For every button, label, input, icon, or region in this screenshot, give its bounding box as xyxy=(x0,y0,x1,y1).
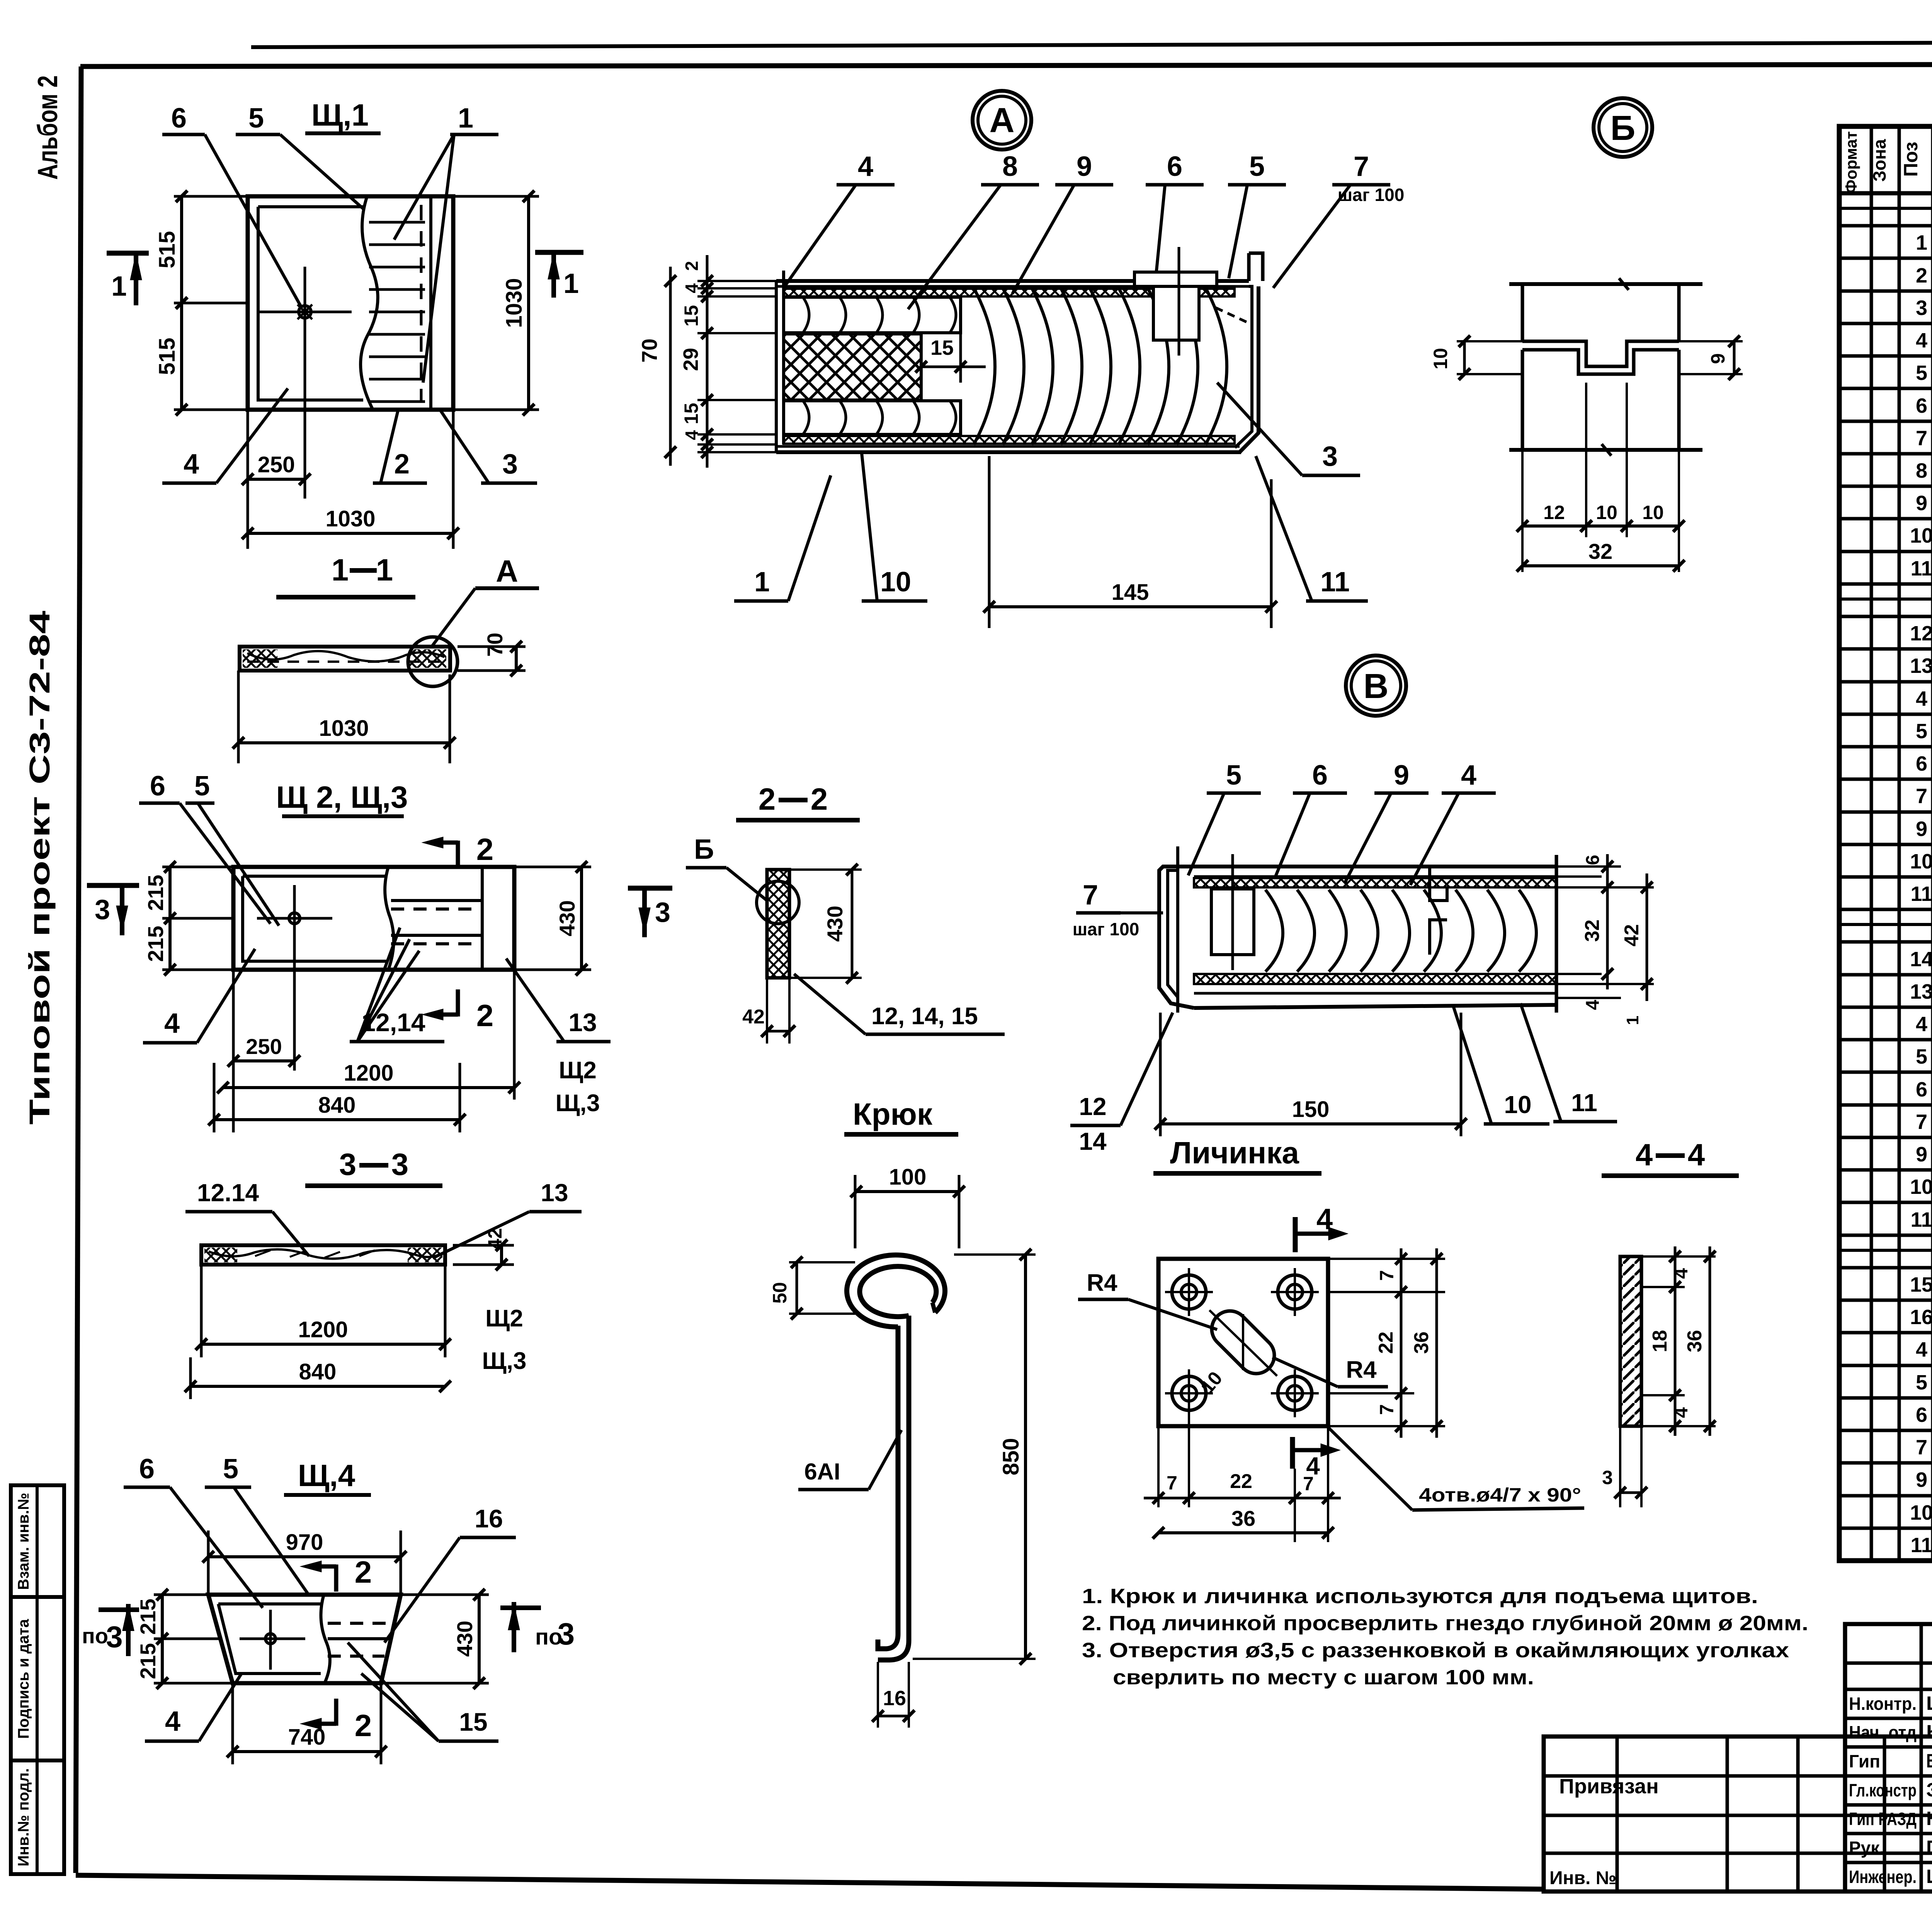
svg-text:R4: R4 xyxy=(1087,1270,1117,1296)
table row 4: поз 3 ДОСКА 59 х 145х 1030 xyxy=(1839,322,1932,325)
table row 23: поз - Щ ит Щ3 xyxy=(1839,940,1932,944)
table row 41: поз 10 АСБЕСТОВЫЙ КАРТОН δ=4, м² xyxy=(1839,1527,1932,1530)
detail A top board woodgrain left part xyxy=(784,297,961,333)
по3 left xyxy=(99,1607,139,1612)
center hole xyxy=(289,913,300,924)
svg-text:Крюк: Крюк xyxy=(853,1097,933,1131)
table row 26: поз 4 ЛИНОЛЕУМδ=2, м² xyxy=(1839,1038,1932,1042)
svg-text:7: 7 xyxy=(1916,1436,1927,1459)
section mark 1-1 right xyxy=(535,250,583,255)
panel Щ1 board lines xyxy=(369,221,425,224)
svg-text:250: 250 xyxy=(258,452,295,477)
svg-text:36: 36 xyxy=(1410,1331,1433,1354)
svg-text:4: 4 xyxy=(1306,1452,1320,1480)
svg-text:11: 11 xyxy=(1320,567,1350,598)
svg-text:9: 9 xyxy=(1916,817,1927,841)
frame left border xyxy=(76,66,81,1873)
section mark 4 bottom xyxy=(1290,1437,1295,1469)
svg-text:Альбом 2: Альбом 2 xyxy=(32,75,63,180)
svg-text:Казаков: Казаков xyxy=(1926,1808,1932,1829)
svg-text:9: 9 xyxy=(1916,1143,1927,1166)
table row 1: поз - Щ ит Щ1 xyxy=(1839,224,1932,228)
svg-text:1: 1 xyxy=(754,567,770,598)
svg-text:Гип РАЗД: Гип РАЗД xyxy=(1849,1809,1917,1829)
svg-text:1: 1 xyxy=(111,271,127,302)
svg-text:8: 8 xyxy=(1916,459,1927,482)
svg-text:4: 4 xyxy=(165,1706,180,1737)
table row 39: поз 7 ШУРУП Ф3 ℓ=22 xyxy=(1839,1461,1932,1465)
hook dim 16 xyxy=(877,1662,879,1728)
upper board bottom with tongue xyxy=(1522,341,1679,366)
svg-text:Виноградов: Виноградов xyxy=(1926,1750,1932,1772)
svg-text:15: 15 xyxy=(930,336,954,359)
svg-text:7: 7 xyxy=(1916,1110,1927,1134)
section 2-2 strip xyxy=(767,870,789,978)
svg-text:Щ,3: Щ,3 xyxy=(482,1348,527,1374)
svg-text:10: 10 xyxy=(1642,502,1664,523)
svg-text:Щ,4: Щ,4 xyxy=(298,1458,355,1493)
detail A left dim stack xyxy=(697,280,776,282)
detail A leader lines xyxy=(784,185,856,287)
svg-text:5: 5 xyxy=(248,103,264,134)
svg-text:42: 42 xyxy=(484,1228,506,1250)
table row 24: поз 14 НАСТИЛ ПОЛА 32х150х520 xyxy=(1839,973,1932,977)
table row 32: поз 11 КРОВЕЛЬНАЯ ОЦИНКОВАННАЯ xyxy=(1839,1234,1932,1237)
svg-text:6: 6 xyxy=(1916,1078,1927,1101)
svg-text:16: 16 xyxy=(474,1504,503,1533)
svg-text:9: 9 xyxy=(1916,492,1927,515)
table row 27: поз 5 АЛЮМИНЕВЫЙ L20х15х1,5х1,5пм xyxy=(1839,1071,1932,1074)
svg-text:Циганова: Циганова xyxy=(1926,1692,1932,1714)
panel Щ1 outer outline xyxy=(248,196,453,410)
hook loop inner xyxy=(860,1267,936,1317)
svg-text:4: 4 xyxy=(858,151,873,182)
svg-text:4: 4 xyxy=(1583,999,1603,1010)
dashes right xyxy=(328,1622,390,1625)
svg-text:70: 70 xyxy=(483,633,507,657)
bottom dims 12 10 10 / 32 xyxy=(1521,450,1524,572)
svg-text:Зона: Зона xyxy=(1869,139,1889,182)
svg-text:6: 6 xyxy=(150,771,165,802)
svg-text:32: 32 xyxy=(1581,919,1604,942)
table row 13: поз - Щ ит Щ2 xyxy=(1839,615,1932,618)
svg-text:10: 10 xyxy=(1910,850,1932,873)
spec table column lines xyxy=(1870,126,1873,1561)
svg-text:6: 6 xyxy=(139,1454,155,1485)
svg-text:7: 7 xyxy=(1354,151,1369,182)
svg-text:11: 11 xyxy=(1571,1089,1597,1117)
table row 10: поз 9 ДРЕВЕСНО-ВОЛОКНИСТАЯ xyxy=(1839,517,1932,521)
svg-text:5: 5 xyxy=(1249,151,1265,182)
svg-text:1030: 1030 xyxy=(319,716,369,741)
svg-text:9: 9 xyxy=(1077,151,1092,182)
svg-text:32: 32 xyxy=(1588,539,1612,564)
svg-text:5: 5 xyxy=(194,771,210,802)
svg-text:7: 7 xyxy=(1167,1472,1177,1494)
svg-text:2. Под личинкой просверлить гн: 2. Под личинкой просверлить гнездо глуби… xyxy=(1082,1612,1808,1635)
svg-text:Гл.констр: Гл.констр xyxy=(1849,1780,1917,1800)
table row 5: поз 4 ЛИНОЛЕУМ δ=2, м² xyxy=(1839,354,1932,358)
svg-text:5: 5 xyxy=(223,1454,238,1485)
svg-text:430: 430 xyxy=(823,906,847,941)
detail Б profile xyxy=(1509,282,1702,286)
table row 28: поз 6 ЛИЧИНКА xyxy=(1839,1103,1932,1107)
table row 19: поз 7 ШУРУП Ф3 ℓ=22 xyxy=(1839,810,1932,814)
svg-text:740: 740 xyxy=(288,1725,326,1750)
dim 740 xyxy=(231,1683,234,1764)
svg-text:Привязан: Привязан xyxy=(1559,1775,1659,1798)
dim 430 xyxy=(789,868,862,871)
svg-text:1200: 1200 xyxy=(298,1317,348,1342)
svg-text:Поз: Поз xyxy=(1900,142,1922,177)
svg-text:15: 15 xyxy=(1910,1273,1932,1296)
detail A circle mark xyxy=(973,91,1031,150)
svg-text:Взам. инв.№: Взам. инв.№ xyxy=(15,1493,32,1590)
section mark 1-1 left xyxy=(107,251,149,256)
section mark 3 right xyxy=(628,886,672,891)
svg-text:11: 11 xyxy=(1910,557,1932,580)
svg-text:Нач. отд: Нач. отд xyxy=(1849,1722,1917,1742)
detail A top layers xyxy=(776,279,1249,283)
dim 970 xyxy=(207,1531,210,1595)
margin stamp boxes xyxy=(11,1485,64,1874)
detail A bottom board woodgrain left part xyxy=(784,401,961,434)
svg-text:Глебова: Глебова xyxy=(1926,1837,1932,1858)
svg-text:шаг 100: шаг 100 xyxy=(1073,919,1139,939)
svg-text:145: 145 xyxy=(1112,580,1149,605)
svg-text:3: 3 xyxy=(106,1620,122,1654)
left cap xyxy=(1159,867,1194,1008)
4 holes xyxy=(1172,1275,1206,1309)
svg-text:1: 1 xyxy=(1916,231,1927,254)
svg-text:9: 9 xyxy=(1394,760,1409,791)
svg-text:12, 14, 15: 12, 14, 15 xyxy=(871,1003,978,1030)
svg-text:3: 3 xyxy=(339,1147,357,1182)
detail A left end vertical edges xyxy=(782,271,785,444)
left attachment table xyxy=(1544,1737,1932,1891)
panel Щ1 board right edge xyxy=(429,196,432,410)
Щ4 left dims 215/215 xyxy=(154,1594,208,1596)
svg-text:850: 850 xyxy=(998,1438,1024,1476)
svg-text:Инв.№ подл.: Инв.№ подл. xyxy=(15,1768,32,1866)
svg-text:Щ,3: Щ,3 xyxy=(556,1090,600,1117)
svg-text:2: 2 xyxy=(394,449,410,480)
detail A big right board woodgrain xyxy=(974,288,995,444)
table row 12: поз 11 КРОВЕЛЬНАЯ ОЦИНКОВАННАЯ xyxy=(1839,582,1932,586)
center hole xyxy=(265,1634,276,1644)
right dims xyxy=(1328,1291,1445,1293)
section mark 4 top xyxy=(1293,1217,1298,1252)
svg-text:14: 14 xyxy=(1079,1127,1107,1155)
svg-text:R4: R4 xyxy=(1346,1357,1377,1383)
svg-text:2: 2 xyxy=(355,1555,372,1589)
svg-text:6: 6 xyxy=(1916,394,1927,417)
svg-text:10: 10 xyxy=(1430,348,1451,369)
svg-text:4: 4 xyxy=(1916,1013,1927,1036)
svg-text:4: 4 xyxy=(1461,760,1476,791)
по3 right xyxy=(500,1605,541,1610)
dim 1200 Щ2 xyxy=(200,1265,203,1357)
central signature block xyxy=(1845,1624,1932,1891)
svg-text:1: 1 xyxy=(376,553,393,587)
svg-text:4: 4 xyxy=(682,430,702,440)
panel Щ2Щ3 outline xyxy=(233,867,514,970)
svg-text:Щ2: Щ2 xyxy=(485,1305,523,1332)
svg-text:3: 3 xyxy=(502,449,518,480)
svg-text:13: 13 xyxy=(1910,980,1932,1003)
panel Щ1 inner border xyxy=(258,207,363,400)
table row 16: поз 4 ЛИНОЛЕ У М δ=2, м² xyxy=(1839,713,1932,716)
svg-text:2: 2 xyxy=(476,832,494,867)
table row 25: поз 13 ДОСКА 32х 150 х 430 xyxy=(1839,1006,1932,1009)
svg-text:4: 4 xyxy=(1316,1203,1333,1236)
svg-text:12: 12 xyxy=(1079,1093,1106,1120)
dim 150 xyxy=(1159,1013,1162,1136)
section mark 3 left xyxy=(87,883,139,888)
frame bottom border xyxy=(76,1875,1544,1889)
svg-text:7: 7 xyxy=(1376,1404,1398,1415)
boards right part xyxy=(391,899,482,902)
svg-text:по: по xyxy=(82,1624,108,1648)
section 3-3 slab xyxy=(201,1245,445,1265)
joint in middle xyxy=(1430,867,1447,955)
svg-text:1: 1 xyxy=(563,268,579,299)
svg-text:5: 5 xyxy=(1916,720,1927,743)
svg-text:5: 5 xyxy=(1226,760,1242,791)
svg-text:3: 3 xyxy=(95,894,110,925)
svg-text:4: 4 xyxy=(184,449,199,480)
table row 31: поз 10 АСБЕСТОВЫЙ КАРТОН δ=4,м² xyxy=(1839,1201,1932,1204)
svg-text:5: 5 xyxy=(1916,361,1927,385)
table row 3: поз 2 ДОСКА 59 х145 х770 xyxy=(1839,289,1932,293)
section mark 2 bottom xyxy=(456,989,460,1016)
table row 34: поз 15 Настил пола32х150х650 xyxy=(1839,1299,1932,1302)
svg-text:36: 36 xyxy=(1684,1330,1706,1352)
lower board top with groove xyxy=(1522,350,1679,374)
svg-text:Щелкова: Щелкова xyxy=(1926,1866,1932,1887)
svg-text:Кочетков: Кочетков xyxy=(1926,1721,1932,1743)
detail В right dims xyxy=(1556,865,1621,868)
detail В circle mark xyxy=(1346,655,1406,716)
svg-text:18: 18 xyxy=(1649,1330,1671,1352)
svg-text:А: А xyxy=(990,101,1015,140)
section mark 2 top xyxy=(456,841,460,868)
svg-text:70: 70 xyxy=(637,339,662,363)
svg-text:2: 2 xyxy=(476,998,494,1033)
svg-text:3: 3 xyxy=(558,1617,575,1651)
right edge double line xyxy=(481,867,484,970)
svg-text:13: 13 xyxy=(568,1008,597,1037)
lichinka pocket left xyxy=(1211,889,1254,955)
svg-text:10: 10 xyxy=(1910,1175,1932,1199)
lichinka plate xyxy=(1158,1259,1328,1426)
svg-text:4: 4 xyxy=(1688,1137,1705,1172)
dim 1200 Щ2 xyxy=(513,970,516,1100)
svg-text:Подпись и дата: Подпись и дата xyxy=(15,1619,32,1739)
inner border xyxy=(243,876,386,961)
svg-text:22: 22 xyxy=(1375,1331,1397,1354)
hook dim 850 xyxy=(954,1253,1036,1256)
table row 14: поз 12 НАСТИЛ ПОЛА 32х150 х920 xyxy=(1839,647,1932,651)
svg-text:16: 16 xyxy=(883,1687,906,1710)
svg-text:13: 13 xyxy=(541,1179,568,1207)
table row 21: поз 10 АСБЕСТОВЫЙ КАРТОН δ=4, м² xyxy=(1839,875,1932,879)
svg-text:515: 515 xyxy=(155,338,180,375)
svg-text:Личинка: Личинка xyxy=(1170,1136,1299,1170)
svg-text:4: 4 xyxy=(682,283,702,293)
dim 42 xyxy=(766,978,768,1044)
table row 20: поз 9 ДРЕВЕСНО-ВОЛОКНИСТАЯ xyxy=(1839,843,1932,846)
hook dim 100 xyxy=(854,1175,857,1248)
svg-text:4: 4 xyxy=(1670,1407,1692,1418)
svg-text:4: 4 xyxy=(164,1008,180,1039)
section mark 2 top xyxy=(334,1565,338,1592)
right edge xyxy=(1555,855,1558,1013)
svg-text:10: 10 xyxy=(1596,502,1617,523)
svg-text:7: 7 xyxy=(1916,785,1927,808)
table row 35: поз 16 ДОСКА 32 х 150 х 450 xyxy=(1839,1331,1932,1335)
svg-text:215: 215 xyxy=(143,875,168,911)
svg-text:11: 11 xyxy=(1910,1534,1932,1557)
svg-text:11: 11 xyxy=(1910,1208,1932,1231)
svg-text:6: 6 xyxy=(1167,151,1182,182)
svg-text:Инв. №: Инв. № xyxy=(1549,1868,1616,1888)
hook stem tube xyxy=(878,1326,898,1649)
svg-text:2: 2 xyxy=(811,782,828,816)
bottom dims xyxy=(1157,1426,1160,1507)
table row 2: поз 1 НАСТИЛ ПОЛА 15х80х770 xyxy=(1839,257,1932,260)
svg-text:В: В xyxy=(1364,667,1389,706)
svg-text:42: 42 xyxy=(1621,924,1643,947)
table row 6: поз 5 АЛЮМИНЕВЫЙ L20х15х1,5х1,5 пм xyxy=(1839,387,1932,390)
svg-text:9: 9 xyxy=(1916,1468,1927,1491)
svg-text:7: 7 xyxy=(1916,427,1927,450)
table row 40: поз 9 ДРЕВЕСНО-ВОЛОКНИСТАЯ xyxy=(1839,1494,1932,1498)
svg-text:Рук.: Рук. xyxy=(1849,1838,1884,1858)
svg-text:1: 1 xyxy=(458,103,473,134)
svg-text:А: А xyxy=(496,554,518,588)
svg-text:6: 6 xyxy=(1916,1403,1927,1427)
svg-text:Б: Б xyxy=(694,834,714,865)
svg-text:Н.контр.: Н.контр. xyxy=(1849,1694,1917,1714)
svg-text:215: 215 xyxy=(143,926,168,962)
break line xyxy=(321,1595,330,1683)
svg-text:6: 6 xyxy=(1916,752,1927,775)
svg-text:2: 2 xyxy=(355,1708,372,1743)
svg-text:12: 12 xyxy=(1543,502,1565,523)
svg-text:6: 6 xyxy=(1312,760,1328,791)
detail A right end cap xyxy=(1249,253,1263,281)
table row 8: поз 7 ШУРУП Ф3 ℓ=22 xyxy=(1839,452,1932,456)
section 1-1 slab xyxy=(240,647,450,671)
svg-text:12.14: 12.14 xyxy=(197,1179,259,1207)
svg-text:215: 215 xyxy=(136,1599,160,1634)
svg-text:16: 16 xyxy=(1910,1306,1932,1329)
svg-text:840: 840 xyxy=(318,1093,356,1118)
table row 37: поз 5 АЛЮМИНЕВЫЙ:L20х15х1,5х1,5 xyxy=(1839,1396,1932,1400)
svg-text:215: 215 xyxy=(136,1643,160,1679)
svg-text:Инженер.: Инженер. xyxy=(1849,1867,1917,1887)
svg-text:Б: Б xyxy=(1611,109,1636,148)
svg-text:1030: 1030 xyxy=(502,278,527,328)
woodgrain arcs xyxy=(1265,890,1283,972)
section mark 2 bottom xyxy=(334,1699,338,1726)
svg-text:100: 100 xyxy=(889,1165,927,1190)
table row 17: поз 5 АЛЮМИНЕВЫЙ L20х15х1,5х1,5пм xyxy=(1839,745,1932,749)
svg-text:2: 2 xyxy=(1916,264,1927,287)
svg-text:Типовой проект С3-72-84: Типовой проект С3-72-84 xyxy=(24,611,56,1125)
svg-text:10: 10 xyxy=(1504,1091,1531,1119)
svg-text:4: 4 xyxy=(1636,1137,1653,1172)
svg-text:3: 3 xyxy=(655,897,670,928)
svg-text:6: 6 xyxy=(1583,855,1603,865)
Щ1 right dim 1030 xyxy=(453,195,539,198)
dim 42 xyxy=(453,1244,514,1247)
svg-text:6АІ: 6АІ xyxy=(804,1459,840,1485)
svg-text:Гип: Гип xyxy=(1849,1751,1880,1771)
svg-text:5: 5 xyxy=(1916,1045,1927,1068)
detail A circle on slab xyxy=(408,637,457,686)
spec table header bottom xyxy=(1839,191,1932,196)
hook dim 50 xyxy=(789,1261,855,1263)
table row 33: поз - Щ ит Щ4 xyxy=(1839,1266,1932,1270)
panel Щ4 trapezoid xyxy=(208,1595,401,1683)
bottom bands xyxy=(1194,974,1556,984)
svg-text:Щ2: Щ2 xyxy=(559,1057,597,1084)
svg-text:840: 840 xyxy=(299,1359,337,1384)
svg-text:2: 2 xyxy=(759,782,776,816)
top line xyxy=(1178,865,1556,868)
svg-text:4отв.ø4/7 х 90°: 4отв.ø4/7 х 90° xyxy=(1419,1484,1581,1506)
svg-text:Щ,1: Щ,1 xyxy=(311,98,369,132)
detail A lichinka pocket xyxy=(1153,286,1199,340)
svg-text:970: 970 xyxy=(286,1530,323,1555)
detail A dashed marks right xyxy=(1216,308,1248,323)
svg-text:7: 7 xyxy=(1376,1270,1398,1281)
Щ4 right dim 430 xyxy=(401,1594,489,1596)
svg-text:5: 5 xyxy=(1916,1371,1927,1394)
svg-text:15: 15 xyxy=(680,403,702,424)
detail Б dims xyxy=(1457,340,1522,342)
svg-text:9: 9 xyxy=(1707,353,1729,364)
central slot rotated 45 xyxy=(1204,1304,1282,1381)
svg-text:1200: 1200 xyxy=(344,1061,393,1086)
svg-text:22: 22 xyxy=(1230,1470,1252,1493)
svg-text:15: 15 xyxy=(680,305,702,327)
svg-text:2: 2 xyxy=(682,261,702,271)
svg-text:10: 10 xyxy=(1910,524,1932,547)
table row 9: поз 8 МИНЕРАЛЬНАЯ ВАТА δ=29, м² xyxy=(1839,485,1932,488)
spec table outer border xyxy=(1839,126,1932,1561)
svg-text:430: 430 xyxy=(555,900,579,936)
table row 7: поз 6 ЛИЧИНКА xyxy=(1839,420,1932,423)
svg-text:29: 29 xyxy=(679,348,702,371)
detail Б circle mark xyxy=(1594,98,1652,157)
detail A thin band top (DVP+asbestos crosshatch) xyxy=(784,289,1235,296)
svg-text:Формат: Формат xyxy=(1842,131,1860,193)
table row 38: поз 6 Л И Ч И Н К А xyxy=(1839,1429,1932,1432)
svg-text:1. Крюк и личинка используются: 1. Крюк и личинка используются для подъе… xyxy=(1082,1585,1758,1608)
svg-text:13: 13 xyxy=(1910,654,1932,678)
detail A mineral wool crosshatch block xyxy=(784,334,921,400)
section 4-4 strip xyxy=(1620,1256,1641,1426)
panel Щ1 center hole xyxy=(299,306,311,318)
Щ1 left dims 515/515 xyxy=(174,195,248,198)
detail A lichinka cover plate xyxy=(1134,272,1217,286)
svg-text:Заречнев: Заречнев xyxy=(1926,1779,1932,1801)
svg-text:4: 4 xyxy=(1916,329,1927,352)
section 1-1 dim 1030 xyxy=(237,671,240,763)
